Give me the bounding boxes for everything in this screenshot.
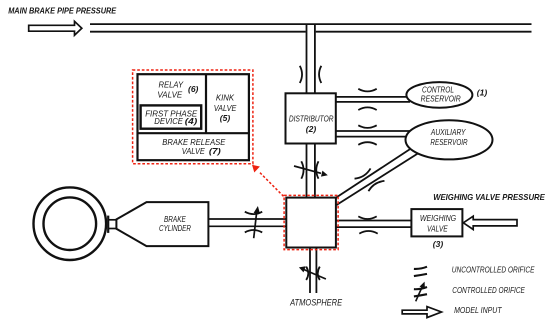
controlled orifice on brake cylinder pipe <box>245 212 262 214</box>
controlled orifice on pipe distributor-node <box>301 161 303 178</box>
wire: pipe central node to weighing valve <box>335 220 412 222</box>
svg-text:VALVE: VALVE <box>182 146 205 156</box>
svg-text:MAIN BRAKE PIPE PRESSURE: MAIN BRAKE PIPE PRESSURE <box>8 6 116 16</box>
module outer box <box>138 74 249 160</box>
uncontrolled orifice on diagonal pipe <box>355 166 385 194</box>
wire: main brake pipe top line <box>90 23 532 25</box>
central node: brake cylinder pressure square <box>286 198 336 248</box>
red dashed arrow from node to module box <box>260 173 284 197</box>
svg-text:KINK: KINK <box>216 93 234 103</box>
svg-text:CYLINDER: CYLINDER <box>159 223 191 233</box>
wheel: outer circle <box>34 187 107 260</box>
wire: connector wheel to brake cylinder <box>108 219 117 221</box>
wire: main brake pipe bottom line (left segment) <box>90 31 306 33</box>
uncontrolled orifice on auxiliary reservoir pipe <box>358 125 376 128</box>
auxiliary reservoir ellipse <box>406 120 493 159</box>
svg-text:CONTROLLED ORIFICE: CONTROLLED ORIFICE <box>452 286 525 295</box>
uncontrolled orifice on vertical pipe <box>300 66 302 83</box>
uncontrolled orifice on weighing valve pipe <box>358 216 376 219</box>
first phase device (4) box <box>141 105 202 128</box>
control reservoir (1) ellipse <box>406 82 472 108</box>
wire: pipe distributor to control reservoir <box>336 96 410 98</box>
svg-text:(2): (2) <box>306 124 317 134</box>
wire: pipe brake cylinder to central node <box>208 218 287 220</box>
wire: diagonal pipe auxiliary reservoir to central node <box>336 147 415 199</box>
svg-text:RESERVOIR: RESERVOIR <box>430 137 467 147</box>
svg-text:RESERVOIR: RESERVOIR <box>421 94 461 104</box>
svg-text:MODEL INPUT: MODEL INPUT <box>454 306 502 315</box>
wire: vertical pipe main pipe to distributor <box>306 25 308 94</box>
red dashed highlight around central node <box>284 195 338 249</box>
wire: pipe distributor to auxiliary reservoir <box>336 130 410 132</box>
svg-text:WEIGHING: WEIGHING <box>420 213 457 223</box>
svg-text:DISTRIBUTOR: DISTRIBUTOR <box>289 113 334 123</box>
svg-text:UNCONTROLLED ORIFICE: UNCONTROLLED ORIFICE <box>452 266 535 275</box>
module divider: vertical <box>205 74 207 133</box>
svg-text:RELAY: RELAY <box>159 79 185 89</box>
svg-text:(5): (5) <box>220 113 231 123</box>
svg-text:WEIGHING VALVE PRESSURE: WEIGHING VALVE PRESSURE <box>433 192 545 202</box>
svg-text:(3): (3) <box>433 239 444 249</box>
uncontrolled orifice on control reservoir pipe <box>358 89 376 92</box>
wire: vertical pipe distributor to central node <box>306 143 308 198</box>
weighing valve (3) box <box>411 209 462 236</box>
wire: main brake pipe bottom line (right segment) <box>316 31 532 33</box>
svg-text:(4): (4) <box>185 116 198 126</box>
svg-text:(7): (7) <box>209 146 221 156</box>
module divider: horizontal <box>138 132 249 134</box>
svg-text:VALVE: VALVE <box>157 89 182 99</box>
svg-text:(1): (1) <box>477 88 488 98</box>
module red dashed box <box>133 70 253 164</box>
svg-text:ATMOSPHERE: ATMOSPHERE <box>289 298 343 308</box>
brake shoe bar <box>107 216 109 233</box>
wire: pipe central node to atmosphere <box>309 247 311 293</box>
legend: controlled orifice symbol <box>414 287 427 289</box>
svg-text:VALVE: VALVE <box>214 103 237 113</box>
model input arrow (main brake pipe) <box>29 21 82 35</box>
controlled orifice on atmosphere pipe <box>306 267 308 280</box>
svg-text:DEVICE: DEVICE <box>154 116 183 126</box>
svg-text:AUXILIARY: AUXILIARY <box>430 127 466 137</box>
legend: model input arrow symbol <box>402 307 441 318</box>
model input arrow (weighing valve) <box>463 216 517 229</box>
brake cylinder body <box>116 202 208 246</box>
distributor U(2) box <box>286 93 336 143</box>
wheel: inner circle <box>44 197 97 250</box>
svg-text:(6): (6) <box>188 84 199 94</box>
svg-text:VALVE: VALVE <box>427 223 448 233</box>
legend: uncontrolled orifice symbol <box>414 267 427 269</box>
